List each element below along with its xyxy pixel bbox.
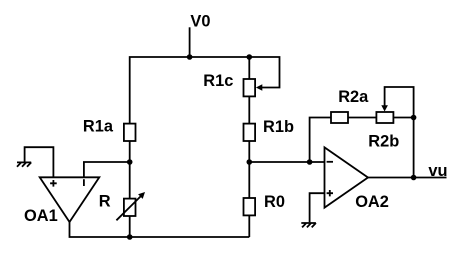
node dot feedback tap: [307, 159, 313, 165]
ground OA1: [17, 162, 31, 166]
wire R2a to R2b: [348, 117, 376, 119]
wire middle column: [248, 57, 250, 237]
resistor R (variable): [124, 199, 136, 216]
resistor R0: [244, 198, 256, 215]
wire OA1 output bottom rail: [70, 222, 250, 237]
op-amp OA2: [325, 147, 369, 207]
wire OA1 minus to node: [84, 162, 130, 177]
svg-text:R0: R0: [264, 193, 285, 211]
wire R2b wiper loop: [385, 87, 414, 118]
node dot output: [411, 175, 417, 181]
node dot V0: [187, 54, 193, 60]
variable resistor R arrow line: [116, 196, 141, 220]
node dot OA1 minus junction: [127, 159, 133, 165]
node dot top R1c: [247, 54, 253, 60]
wire OA1 plus to ground: [25, 147, 54, 177]
svg-text:R2a: R2a: [338, 88, 369, 106]
resistor R1a: [124, 124, 136, 141]
svg-text:OA2: OA2: [355, 193, 389, 211]
ground OA2: [301, 223, 316, 227]
arrowhead R1c wiper: [256, 84, 262, 90]
resistor R2a: [331, 112, 348, 123]
arrowhead R variable: [138, 192, 145, 199]
wire OA2 plus to ground: [310, 193, 325, 222]
svg-text:R: R: [99, 193, 111, 211]
svg-text:OA1: OA1: [24, 207, 58, 225]
wire output vu: [368, 177, 447, 179]
node dot mid R1b/R0: [247, 159, 253, 165]
svg-text:V0: V0: [190, 12, 210, 30]
resistor R1b: [244, 124, 256, 141]
resistor R2b (pot): [376, 112, 393, 123]
wire V0 stub: [189, 27, 191, 57]
OA2 minus marker: [327, 161, 333, 163]
wire top rail with R1c feedback loop: [130, 57, 280, 124]
OA1 plus marker: [50, 180, 57, 187]
svg-text:R1a: R1a: [83, 117, 114, 135]
wire left column: [129, 141, 131, 237]
node dot R2b right: [411, 115, 417, 121]
wire R2b to right node: [393, 117, 413, 119]
resistor R1c (pot): [244, 79, 256, 96]
svg-text:R1c: R1c: [203, 72, 233, 90]
svg-text:R2b: R2b: [368, 132, 399, 150]
OA2 plus marker: [327, 190, 333, 196]
svg-text:vu: vu: [428, 162, 447, 180]
wire mid horizontal to OA2 minus: [249, 161, 324, 163]
wire feedback up to R2a: [310, 118, 331, 163]
OA1 minus marker: [83, 179, 85, 186]
op-amp OA1: [40, 177, 100, 222]
wire right vertical to output: [413, 118, 415, 178]
node dot bottom rail: [127, 234, 133, 240]
svg-text:R1b: R1b: [263, 118, 294, 136]
arrowhead R2b wiper: [381, 105, 388, 111]
